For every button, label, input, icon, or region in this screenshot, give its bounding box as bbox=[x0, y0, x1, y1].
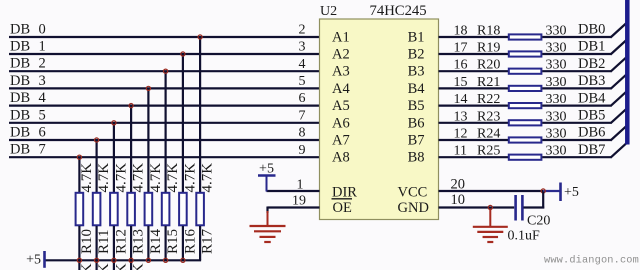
svg-text:DB1: DB1 bbox=[578, 39, 605, 55]
svg-text:11: 11 bbox=[454, 144, 467, 159]
svg-text:330: 330 bbox=[546, 127, 567, 142]
svg-text:DB: DB bbox=[10, 73, 30, 89]
svg-text:B6: B6 bbox=[408, 115, 425, 131]
svg-text:B1: B1 bbox=[408, 30, 425, 46]
svg-text:DB0: DB0 bbox=[578, 22, 605, 38]
svg-text:DB: DB bbox=[10, 125, 30, 141]
svg-text:www.diangon.com: www.diangon.com bbox=[544, 255, 639, 267]
svg-text:R13: R13 bbox=[131, 229, 147, 254]
svg-text:DB5: DB5 bbox=[578, 108, 605, 124]
svg-text:DB2: DB2 bbox=[578, 56, 605, 72]
svg-text:DB: DB bbox=[10, 90, 30, 106]
svg-text:4.7K: 4.7K bbox=[96, 163, 112, 193]
svg-text:DB7: DB7 bbox=[578, 142, 605, 158]
svg-text:4.7K: 4.7K bbox=[113, 163, 129, 193]
svg-text:R11: R11 bbox=[96, 230, 112, 254]
svg-text:+5: +5 bbox=[564, 185, 579, 200]
svg-text:4.7K: 4.7K bbox=[113, 263, 129, 270]
svg-text:7: 7 bbox=[39, 142, 46, 158]
svg-text:9: 9 bbox=[299, 143, 306, 158]
svg-text:OE: OE bbox=[333, 200, 352, 216]
svg-text:+5: +5 bbox=[26, 253, 41, 268]
svg-text:A1: A1 bbox=[332, 30, 350, 46]
svg-text:DB4: DB4 bbox=[578, 90, 606, 106]
svg-text:R16: R16 bbox=[182, 228, 198, 254]
svg-text:13: 13 bbox=[454, 109, 468, 124]
svg-text:4.7K: 4.7K bbox=[79, 163, 95, 193]
svg-text:4: 4 bbox=[39, 90, 47, 106]
svg-text:7: 7 bbox=[299, 108, 306, 123]
svg-text:B3: B3 bbox=[408, 64, 425, 80]
svg-text:R24: R24 bbox=[477, 127, 500, 142]
svg-text:14: 14 bbox=[454, 92, 468, 107]
svg-text:DB: DB bbox=[10, 22, 30, 38]
svg-text:330: 330 bbox=[546, 75, 567, 90]
svg-text:19: 19 bbox=[292, 194, 306, 209]
svg-text:B8: B8 bbox=[408, 150, 425, 166]
svg-text:17: 17 bbox=[454, 41, 468, 56]
svg-text:74HC245: 74HC245 bbox=[370, 3, 427, 19]
svg-text:5: 5 bbox=[39, 107, 46, 123]
svg-text:330: 330 bbox=[546, 41, 567, 56]
svg-text:A5: A5 bbox=[332, 98, 350, 114]
svg-text:16: 16 bbox=[454, 58, 468, 73]
svg-text:10: 10 bbox=[451, 192, 466, 208]
svg-text:A8: A8 bbox=[332, 150, 350, 166]
svg-text:12: 12 bbox=[454, 127, 468, 142]
svg-text:330: 330 bbox=[546, 58, 567, 73]
svg-text:4.7K: 4.7K bbox=[182, 163, 198, 193]
svg-text:330: 330 bbox=[546, 144, 567, 159]
svg-text:A7: A7 bbox=[332, 133, 350, 149]
svg-text:0.1uF: 0.1uF bbox=[508, 229, 541, 244]
svg-text:U2: U2 bbox=[320, 4, 337, 19]
svg-text:3: 3 bbox=[39, 73, 46, 89]
svg-text:VCC: VCC bbox=[398, 185, 428, 201]
svg-text:6: 6 bbox=[299, 91, 306, 106]
svg-text:4.7K: 4.7K bbox=[79, 263, 95, 270]
svg-text:18: 18 bbox=[454, 24, 468, 39]
svg-text:B4: B4 bbox=[408, 81, 426, 97]
svg-text:R12: R12 bbox=[113, 229, 129, 254]
svg-text:DB3: DB3 bbox=[578, 73, 605, 89]
svg-text:2: 2 bbox=[39, 56, 46, 72]
svg-text:A6: A6 bbox=[332, 115, 350, 131]
svg-text:C20: C20 bbox=[527, 214, 550, 229]
svg-text:R19: R19 bbox=[477, 41, 500, 56]
svg-text:3: 3 bbox=[299, 40, 306, 55]
svg-text:0: 0 bbox=[39, 22, 46, 38]
svg-text:R18: R18 bbox=[477, 24, 500, 39]
svg-text:R20: R20 bbox=[477, 58, 500, 73]
svg-text:4.7K: 4.7K bbox=[165, 163, 181, 193]
svg-text:DB: DB bbox=[10, 56, 30, 72]
svg-text:DB: DB bbox=[10, 107, 30, 123]
svg-text:4.7K: 4.7K bbox=[148, 163, 164, 193]
svg-text:A2: A2 bbox=[332, 47, 350, 63]
svg-text:DB: DB bbox=[10, 39, 30, 55]
svg-text:A3: A3 bbox=[332, 64, 350, 80]
svg-text:4.7K: 4.7K bbox=[131, 163, 147, 193]
svg-text:330: 330 bbox=[546, 92, 567, 107]
svg-text:R15: R15 bbox=[165, 229, 181, 254]
svg-text:5: 5 bbox=[299, 74, 306, 89]
svg-text:4: 4 bbox=[299, 57, 306, 72]
svg-text:4.7K: 4.7K bbox=[200, 163, 216, 193]
svg-text:4.7K: 4.7K bbox=[96, 263, 112, 270]
svg-text:15: 15 bbox=[454, 75, 468, 90]
svg-text:A4: A4 bbox=[332, 81, 350, 97]
svg-text:R17: R17 bbox=[200, 228, 216, 254]
svg-text:R25: R25 bbox=[477, 144, 500, 159]
svg-text:R21: R21 bbox=[477, 75, 500, 90]
svg-text:B5: B5 bbox=[408, 98, 425, 114]
svg-text:DB6: DB6 bbox=[578, 125, 605, 141]
svg-text:R10: R10 bbox=[79, 229, 95, 254]
svg-text:1: 1 bbox=[39, 39, 46, 55]
svg-text:B2: B2 bbox=[408, 47, 425, 63]
svg-text:8: 8 bbox=[299, 126, 306, 141]
svg-text:6: 6 bbox=[39, 125, 46, 141]
svg-text:+5: +5 bbox=[259, 162, 274, 177]
svg-text:GND: GND bbox=[398, 200, 429, 216]
svg-text:4.7K: 4.7K bbox=[131, 263, 147, 270]
svg-text:R22: R22 bbox=[477, 92, 500, 107]
svg-text:2: 2 bbox=[299, 23, 306, 38]
svg-text:B7: B7 bbox=[408, 133, 425, 149]
svg-text:DB: DB bbox=[10, 142, 30, 158]
svg-text:330: 330 bbox=[546, 24, 567, 39]
svg-text:R23: R23 bbox=[477, 109, 500, 124]
svg-text:330: 330 bbox=[546, 109, 567, 124]
svg-text:R14: R14 bbox=[148, 228, 164, 254]
